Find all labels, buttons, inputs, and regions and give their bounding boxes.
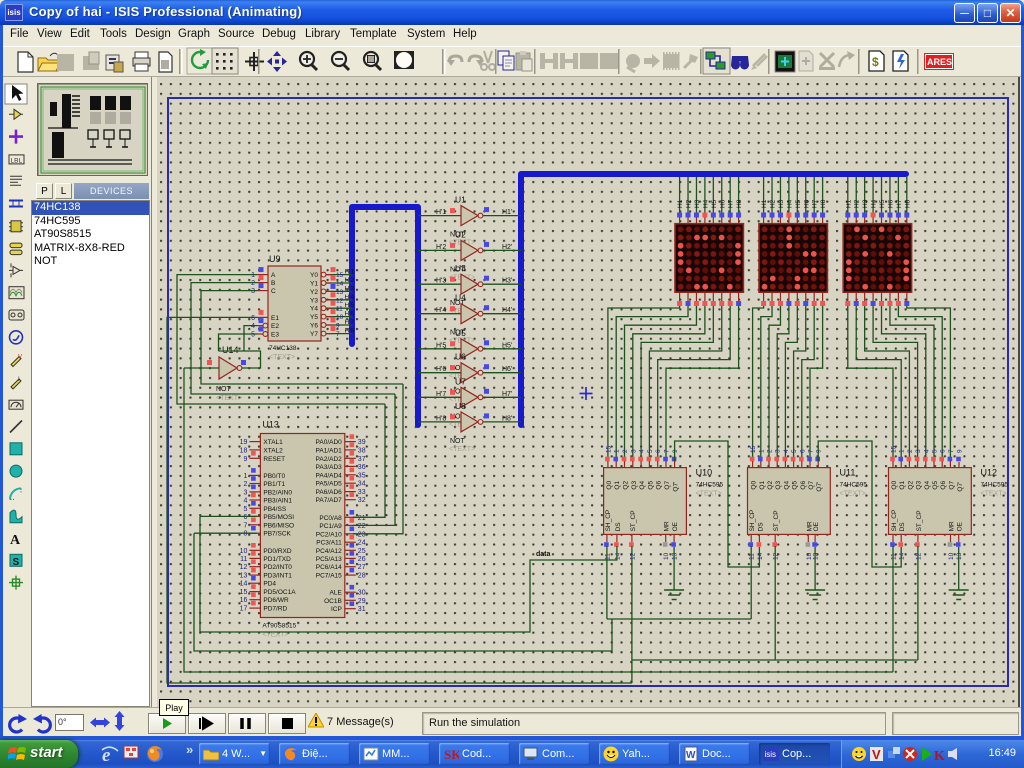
- svg-text:H'4: H'4: [345, 294, 355, 301]
- svg-text:6: 6: [799, 449, 806, 453]
- svg-text:31: 31: [358, 606, 366, 613]
- svg-text:Y1: Y1: [310, 281, 318, 288]
- svg-text:H7': H7': [502, 391, 512, 398]
- svg-text:7: 7: [664, 449, 671, 453]
- svg-text:U2: U2: [455, 229, 466, 239]
- svg-text:<TEXT>: <TEXT>: [696, 491, 722, 498]
- svg-text:PA2/AD2: PA2/AD2: [316, 456, 343, 463]
- svg-text:H'8: H'8: [436, 415, 446, 422]
- svg-text:12: 12: [773, 552, 780, 560]
- svg-text:22: 22: [358, 523, 366, 530]
- svg-text:H2: H2: [854, 199, 861, 208]
- svg-text:NOT: NOT: [216, 386, 232, 393]
- svg-text:3: 3: [915, 449, 922, 453]
- svg-text:<TEXT>: <TEXT>: [269, 354, 295, 361]
- svg-text:Q6: Q6: [800, 481, 807, 490]
- svg-text:Q3: Q3: [916, 481, 923, 490]
- svg-text:11: 11: [604, 553, 611, 560]
- svg-text:9: 9: [336, 323, 340, 330]
- svg-text:7: 7: [336, 331, 340, 338]
- svg-text:2: 2: [907, 449, 914, 453]
- svg-text:Q7': Q7': [673, 482, 680, 492]
- svg-text:15: 15: [336, 272, 344, 279]
- svg-text:H2: H2: [770, 199, 777, 208]
- svg-text:H4': H4': [502, 307, 512, 314]
- svg-text:PC4/A12: PC4/A12: [316, 548, 342, 555]
- svg-text:Y3: Y3: [310, 297, 318, 304]
- svg-text:U6: U6: [455, 352, 466, 362]
- svg-text:ST_CP: ST_CP: [630, 510, 637, 531]
- svg-text:PD4: PD4: [263, 581, 276, 588]
- svg-text:E2: E2: [271, 323, 279, 330]
- svg-text:PD5/OC1A: PD5/OC1A: [263, 589, 296, 596]
- svg-text:3: 3: [775, 449, 782, 453]
- svg-text:Q3: Q3: [631, 481, 638, 490]
- svg-text:15: 15: [240, 589, 248, 596]
- svg-text:12: 12: [240, 564, 248, 571]
- svg-text:H5: H5: [795, 199, 802, 208]
- svg-text:2: 2: [251, 280, 255, 287]
- svg-text:PB4/SS: PB4/SS: [263, 506, 286, 513]
- svg-text:10: 10: [240, 548, 248, 555]
- svg-text:4: 4: [251, 323, 255, 330]
- svg-text:Q0: Q0: [751, 481, 758, 490]
- svg-text:H6: H6: [719, 199, 726, 208]
- svg-text:LBL: LBL: [11, 157, 23, 164]
- svg-text:PC7/A15: PC7/A15: [316, 573, 342, 580]
- svg-text:Q4: Q4: [783, 481, 790, 490]
- svg-text:27: 27: [358, 564, 366, 571]
- svg-text:DS: DS: [757, 522, 764, 532]
- svg-text:Q3: Q3: [775, 481, 782, 490]
- svg-text:11: 11: [240, 556, 247, 563]
- svg-text:XTAL2: XTAL2: [263, 447, 283, 454]
- svg-text:7: 7: [808, 449, 815, 453]
- svg-text:2: 2: [243, 481, 247, 488]
- svg-text:H3: H3: [778, 199, 785, 208]
- svg-text:K: K: [934, 749, 945, 764]
- svg-text:H4: H4: [702, 199, 709, 208]
- svg-text:U3: U3: [455, 263, 466, 273]
- svg-text:H6: H6: [803, 199, 810, 208]
- svg-text:PD7/RD: PD7/RD: [263, 606, 287, 613]
- svg-text:RESET: RESET: [263, 456, 285, 463]
- svg-text:3: 3: [243, 489, 247, 496]
- svg-text:U9: U9: [269, 254, 281, 264]
- svg-text:S: S: [13, 557, 20, 568]
- svg-text:PB1/T1: PB1/T1: [263, 481, 285, 488]
- svg-text:Q5: Q5: [647, 481, 654, 490]
- svg-text:6: 6: [655, 449, 662, 453]
- svg-text:PA4/AD4: PA4/AD4: [316, 472, 343, 479]
- svg-text:19: 19: [240, 439, 248, 446]
- svg-text:H'1: H'1: [345, 269, 355, 276]
- svg-text:OE: OE: [813, 521, 820, 531]
- svg-text:Q6: Q6: [656, 481, 663, 490]
- svg-text:H6: H6: [887, 199, 894, 208]
- svg-text:<TEXT>: <TEXT>: [216, 395, 242, 402]
- svg-text:OE: OE: [672, 521, 679, 531]
- svg-text:PB3/AIN1: PB3/AIN1: [263, 498, 292, 505]
- svg-text:14: 14: [899, 552, 906, 560]
- svg-text:32: 32: [358, 497, 366, 504]
- svg-text:PA3/AD3: PA3/AD3: [316, 464, 343, 471]
- svg-text:U12: U12: [981, 468, 998, 478]
- svg-text:MR: MR: [664, 521, 671, 531]
- svg-text:Q2: Q2: [623, 481, 630, 490]
- svg-text:U5: U5: [455, 328, 466, 338]
- svg-text:H'6: H'6: [436, 366, 446, 373]
- svg-text:V: V: [18, 355, 22, 361]
- svg-text:Q6: Q6: [940, 481, 947, 490]
- svg-text:9: 9: [672, 449, 679, 453]
- svg-text:XTAL1: XTAL1: [263, 439, 283, 446]
- svg-text:Q7': Q7': [816, 482, 823, 492]
- svg-text:H5': H5': [502, 342, 512, 349]
- svg-text:<TEXT>: <TEXT>: [840, 491, 866, 498]
- svg-text:10: 10: [336, 314, 344, 321]
- svg-text:H1: H1: [761, 199, 768, 208]
- svg-text:74HC595: 74HC595: [840, 482, 868, 489]
- svg-text:25: 25: [358, 548, 366, 555]
- svg-text:H8': H8': [502, 415, 512, 422]
- svg-text:7: 7: [948, 449, 955, 453]
- svg-text:38: 38: [358, 447, 366, 454]
- svg-text:U4: U4: [455, 293, 466, 303]
- svg-text:isis: isis: [765, 750, 777, 759]
- svg-text:30: 30: [358, 590, 366, 597]
- svg-text:<TEXT>: <TEXT>: [449, 446, 475, 453]
- svg-text:PA6/AD6: PA6/AD6: [316, 489, 343, 496]
- svg-text:13: 13: [672, 552, 679, 560]
- svg-text:H2': H2': [502, 244, 512, 251]
- svg-text:<TEXT>: <TEXT>: [981, 491, 1007, 498]
- svg-text:Y2: Y2: [310, 289, 318, 296]
- svg-text:A: A: [10, 533, 21, 548]
- svg-text:1: 1: [758, 449, 765, 453]
- svg-text:33: 33: [358, 489, 366, 496]
- svg-text:4: 4: [639, 449, 646, 453]
- svg-text:PC2/A10: PC2/A10: [316, 531, 342, 538]
- svg-text:E3: E3: [271, 332, 279, 339]
- svg-text:PD0/RXD: PD0/RXD: [263, 548, 291, 555]
- svg-text:ARES: ARES: [927, 57, 952, 67]
- svg-text:12: 12: [336, 297, 344, 304]
- svg-text:PC6/A14: PC6/A14: [316, 564, 342, 571]
- svg-text:1: 1: [243, 473, 247, 480]
- svg-text:Q4: Q4: [639, 481, 646, 490]
- svg-text:74HC138: 74HC138: [269, 345, 297, 352]
- svg-text:ST_CP: ST_CP: [916, 510, 923, 531]
- svg-text:2: 2: [622, 449, 629, 453]
- svg-text:7: 7: [243, 522, 247, 529]
- svg-text:1: 1: [614, 449, 621, 453]
- svg-text:5: 5: [243, 506, 247, 513]
- svg-text:A: A: [271, 272, 276, 279]
- svg-text:2: 2: [767, 449, 774, 453]
- svg-text:E1: E1: [271, 315, 279, 322]
- svg-text:H8: H8: [820, 199, 827, 208]
- svg-text:AT90S8515: AT90S8515: [262, 623, 296, 630]
- svg-text:V: V: [872, 747, 881, 762]
- svg-text:W: W: [686, 750, 696, 761]
- svg-text:H'3: H'3: [345, 285, 355, 292]
- svg-text:DS: DS: [899, 522, 906, 532]
- svg-text:5: 5: [251, 332, 255, 339]
- svg-text:13: 13: [240, 573, 248, 580]
- svg-text:13: 13: [336, 289, 344, 296]
- svg-text:Y4: Y4: [310, 306, 318, 313]
- svg-text:PC5/A13: PC5/A13: [316, 556, 342, 563]
- svg-text:3: 3: [630, 449, 637, 453]
- svg-text:H7: H7: [812, 199, 819, 208]
- svg-text:5: 5: [932, 449, 939, 453]
- svg-text:OC1B: OC1B: [324, 598, 342, 605]
- svg-text:PA5/AD5: PA5/AD5: [316, 481, 343, 488]
- svg-text:H5: H5: [711, 199, 718, 208]
- svg-text:8: 8: [243, 531, 247, 538]
- svg-text:H'8: H'8: [345, 328, 355, 335]
- svg-text:H1: H1: [677, 199, 684, 208]
- svg-text:U7: U7: [455, 376, 466, 386]
- svg-text:H4: H4: [786, 199, 793, 208]
- svg-text:H7: H7: [896, 199, 903, 208]
- svg-text:H'2: H'2: [345, 277, 355, 284]
- svg-text:6: 6: [940, 449, 947, 453]
- svg-text:U1: U1: [455, 195, 466, 205]
- svg-text:PB5/MOSI: PB5/MOSI: [263, 514, 294, 521]
- svg-text:4: 4: [923, 449, 930, 453]
- svg-text:PB6/MISO: PB6/MISO: [263, 522, 294, 529]
- svg-text:29: 29: [358, 598, 366, 605]
- svg-text:Q0: Q0: [606, 481, 613, 490]
- svg-text:PB7/SCK: PB7/SCK: [263, 531, 291, 538]
- svg-text:PD2/INT0: PD2/INT0: [263, 564, 292, 571]
- svg-text:10: 10: [948, 552, 955, 560]
- svg-text:PA7/AD7: PA7/AD7: [316, 497, 343, 504]
- svg-text:PA0/AD0: PA0/AD0: [316, 439, 343, 446]
- svg-text:H5: H5: [879, 199, 886, 208]
- svg-text:35: 35: [358, 472, 366, 479]
- svg-text:26: 26: [358, 556, 366, 563]
- svg-text:PD3/INT1: PD3/INT1: [263, 573, 292, 580]
- svg-text:SH_CP: SH_CP: [749, 510, 756, 532]
- svg-text:36: 36: [358, 464, 366, 471]
- svg-text:U11: U11: [840, 468, 856, 478]
- svg-text:Q2: Q2: [767, 481, 774, 490]
- svg-text:74HC595: 74HC595: [981, 482, 1009, 489]
- svg-text:14: 14: [240, 581, 248, 588]
- svg-text:ICP: ICP: [331, 606, 342, 613]
- svg-text:4: 4: [783, 449, 790, 453]
- svg-text:Q7: Q7: [948, 481, 955, 490]
- svg-text:$: $: [872, 55, 879, 69]
- svg-text:H'4: H'4: [436, 307, 446, 314]
- svg-text:Q7': Q7': [957, 482, 964, 492]
- svg-text:U13: U13: [262, 420, 279, 430]
- svg-text:U8: U8: [455, 401, 466, 411]
- svg-text:24: 24: [358, 540, 366, 547]
- svg-text:Q2: Q2: [907, 481, 914, 490]
- svg-text:SK: SK: [444, 747, 459, 762]
- svg-text:H'7: H'7: [345, 319, 355, 326]
- svg-text:ST_CP: ST_CP: [773, 510, 780, 531]
- svg-text:H3: H3: [694, 199, 701, 208]
- svg-text:data: data: [536, 551, 551, 558]
- svg-text:U10: U10: [696, 468, 713, 478]
- svg-text:21: 21: [358, 515, 366, 522]
- svg-text:H6': H6': [502, 366, 512, 373]
- svg-text:14: 14: [614, 552, 621, 560]
- svg-text:6: 6: [251, 315, 255, 322]
- svg-text:H1': H1': [502, 209, 512, 216]
- svg-text:17: 17: [240, 606, 248, 613]
- svg-text:1: 1: [251, 272, 255, 279]
- svg-text:23: 23: [358, 531, 366, 538]
- svg-text:H8: H8: [904, 199, 911, 208]
- svg-text:H'5: H'5: [436, 342, 446, 349]
- svg-text:3: 3: [251, 288, 255, 295]
- svg-text:H'1: H'1: [436, 209, 446, 216]
- svg-text:15: 15: [750, 445, 757, 453]
- svg-text:PA1/AD1: PA1/AD1: [316, 447, 343, 454]
- svg-text:H'3: H'3: [436, 278, 446, 285]
- svg-text:Q5: Q5: [932, 481, 939, 490]
- svg-text:Y7: Y7: [310, 331, 318, 338]
- svg-text:34: 34: [358, 481, 366, 488]
- svg-text:9: 9: [957, 449, 964, 453]
- svg-text:U14: U14: [222, 345, 239, 355]
- svg-text:5: 5: [791, 449, 798, 453]
- svg-text:39: 39: [358, 439, 366, 446]
- svg-text:PB2/AIN0: PB2/AIN0: [263, 489, 292, 496]
- svg-text:5: 5: [647, 449, 654, 453]
- svg-text:11: 11: [749, 553, 756, 560]
- svg-text:Q7: Q7: [664, 481, 671, 490]
- svg-text:1: 1: [899, 449, 906, 453]
- svg-text:16: 16: [240, 597, 248, 604]
- svg-text:H1: H1: [845, 199, 852, 208]
- svg-text:SH_CP: SH_CP: [605, 510, 612, 532]
- svg-text:OE: OE: [957, 521, 964, 531]
- svg-text:9: 9: [816, 449, 823, 453]
- svg-text:9: 9: [243, 456, 247, 463]
- svg-text:H'6: H'6: [345, 311, 355, 318]
- svg-text:PC0/A8: PC0/A8: [319, 515, 342, 522]
- svg-text:Y0: Y0: [310, 272, 318, 279]
- svg-text:Q1: Q1: [614, 481, 621, 490]
- svg-text:28: 28: [358, 573, 366, 580]
- svg-text:H8: H8: [736, 199, 743, 208]
- svg-text:Q1: Q1: [759, 481, 766, 490]
- svg-text:14: 14: [757, 552, 764, 560]
- svg-text:H2: H2: [686, 199, 693, 208]
- svg-text:Q4: Q4: [924, 481, 931, 490]
- svg-text:11: 11: [891, 553, 898, 560]
- svg-text:DS: DS: [615, 522, 622, 532]
- svg-text:PC3/A11: PC3/A11: [316, 540, 342, 547]
- svg-text:H'7: H'7: [436, 391, 446, 398]
- svg-text:11: 11: [336, 306, 343, 313]
- svg-text:H'5: H'5: [345, 302, 355, 309]
- svg-text:H'2: H'2: [436, 244, 446, 251]
- svg-text:PD1/TXD: PD1/TXD: [263, 556, 291, 563]
- svg-text:PC1/A9: PC1/A9: [319, 523, 342, 530]
- svg-text:13: 13: [956, 552, 963, 560]
- svg-text:Q1: Q1: [899, 481, 906, 490]
- svg-text:Q0: Q0: [891, 481, 898, 490]
- svg-text:MR: MR: [949, 521, 956, 531]
- svg-text:SH_CP: SH_CP: [891, 510, 898, 532]
- svg-text:15: 15: [891, 445, 898, 453]
- svg-text:Q7: Q7: [808, 481, 815, 490]
- svg-text:Y6: Y6: [310, 323, 318, 330]
- svg-text:12: 12: [629, 552, 636, 560]
- svg-text:H4: H4: [871, 199, 878, 208]
- svg-text:H3: H3: [862, 199, 869, 208]
- svg-text:ALE: ALE: [330, 590, 343, 597]
- svg-text:10: 10: [663, 552, 670, 560]
- svg-text:PD6/WR: PD6/WR: [263, 597, 289, 604]
- svg-text:37: 37: [358, 456, 366, 463]
- svg-text:»: »: [186, 742, 193, 757]
- svg-text:H7: H7: [728, 199, 735, 208]
- svg-text:H3': H3': [502, 278, 512, 285]
- svg-text:NOT: NOT: [450, 438, 466, 445]
- svg-text:4: 4: [243, 498, 247, 505]
- svg-text:6: 6: [243, 514, 247, 521]
- svg-text:Y5: Y5: [310, 314, 318, 321]
- svg-text:14: 14: [336, 281, 344, 288]
- svg-text:PB0/T0: PB0/T0: [263, 473, 285, 480]
- svg-text:Q5: Q5: [792, 481, 799, 490]
- svg-text:13: 13: [813, 552, 820, 560]
- svg-text:18: 18: [240, 447, 248, 454]
- svg-text:B: B: [271, 280, 275, 287]
- svg-text:74HC595: 74HC595: [696, 482, 724, 489]
- svg-text:12: 12: [915, 552, 922, 560]
- svg-text:C: C: [271, 288, 276, 295]
- svg-text:15: 15: [605, 445, 612, 453]
